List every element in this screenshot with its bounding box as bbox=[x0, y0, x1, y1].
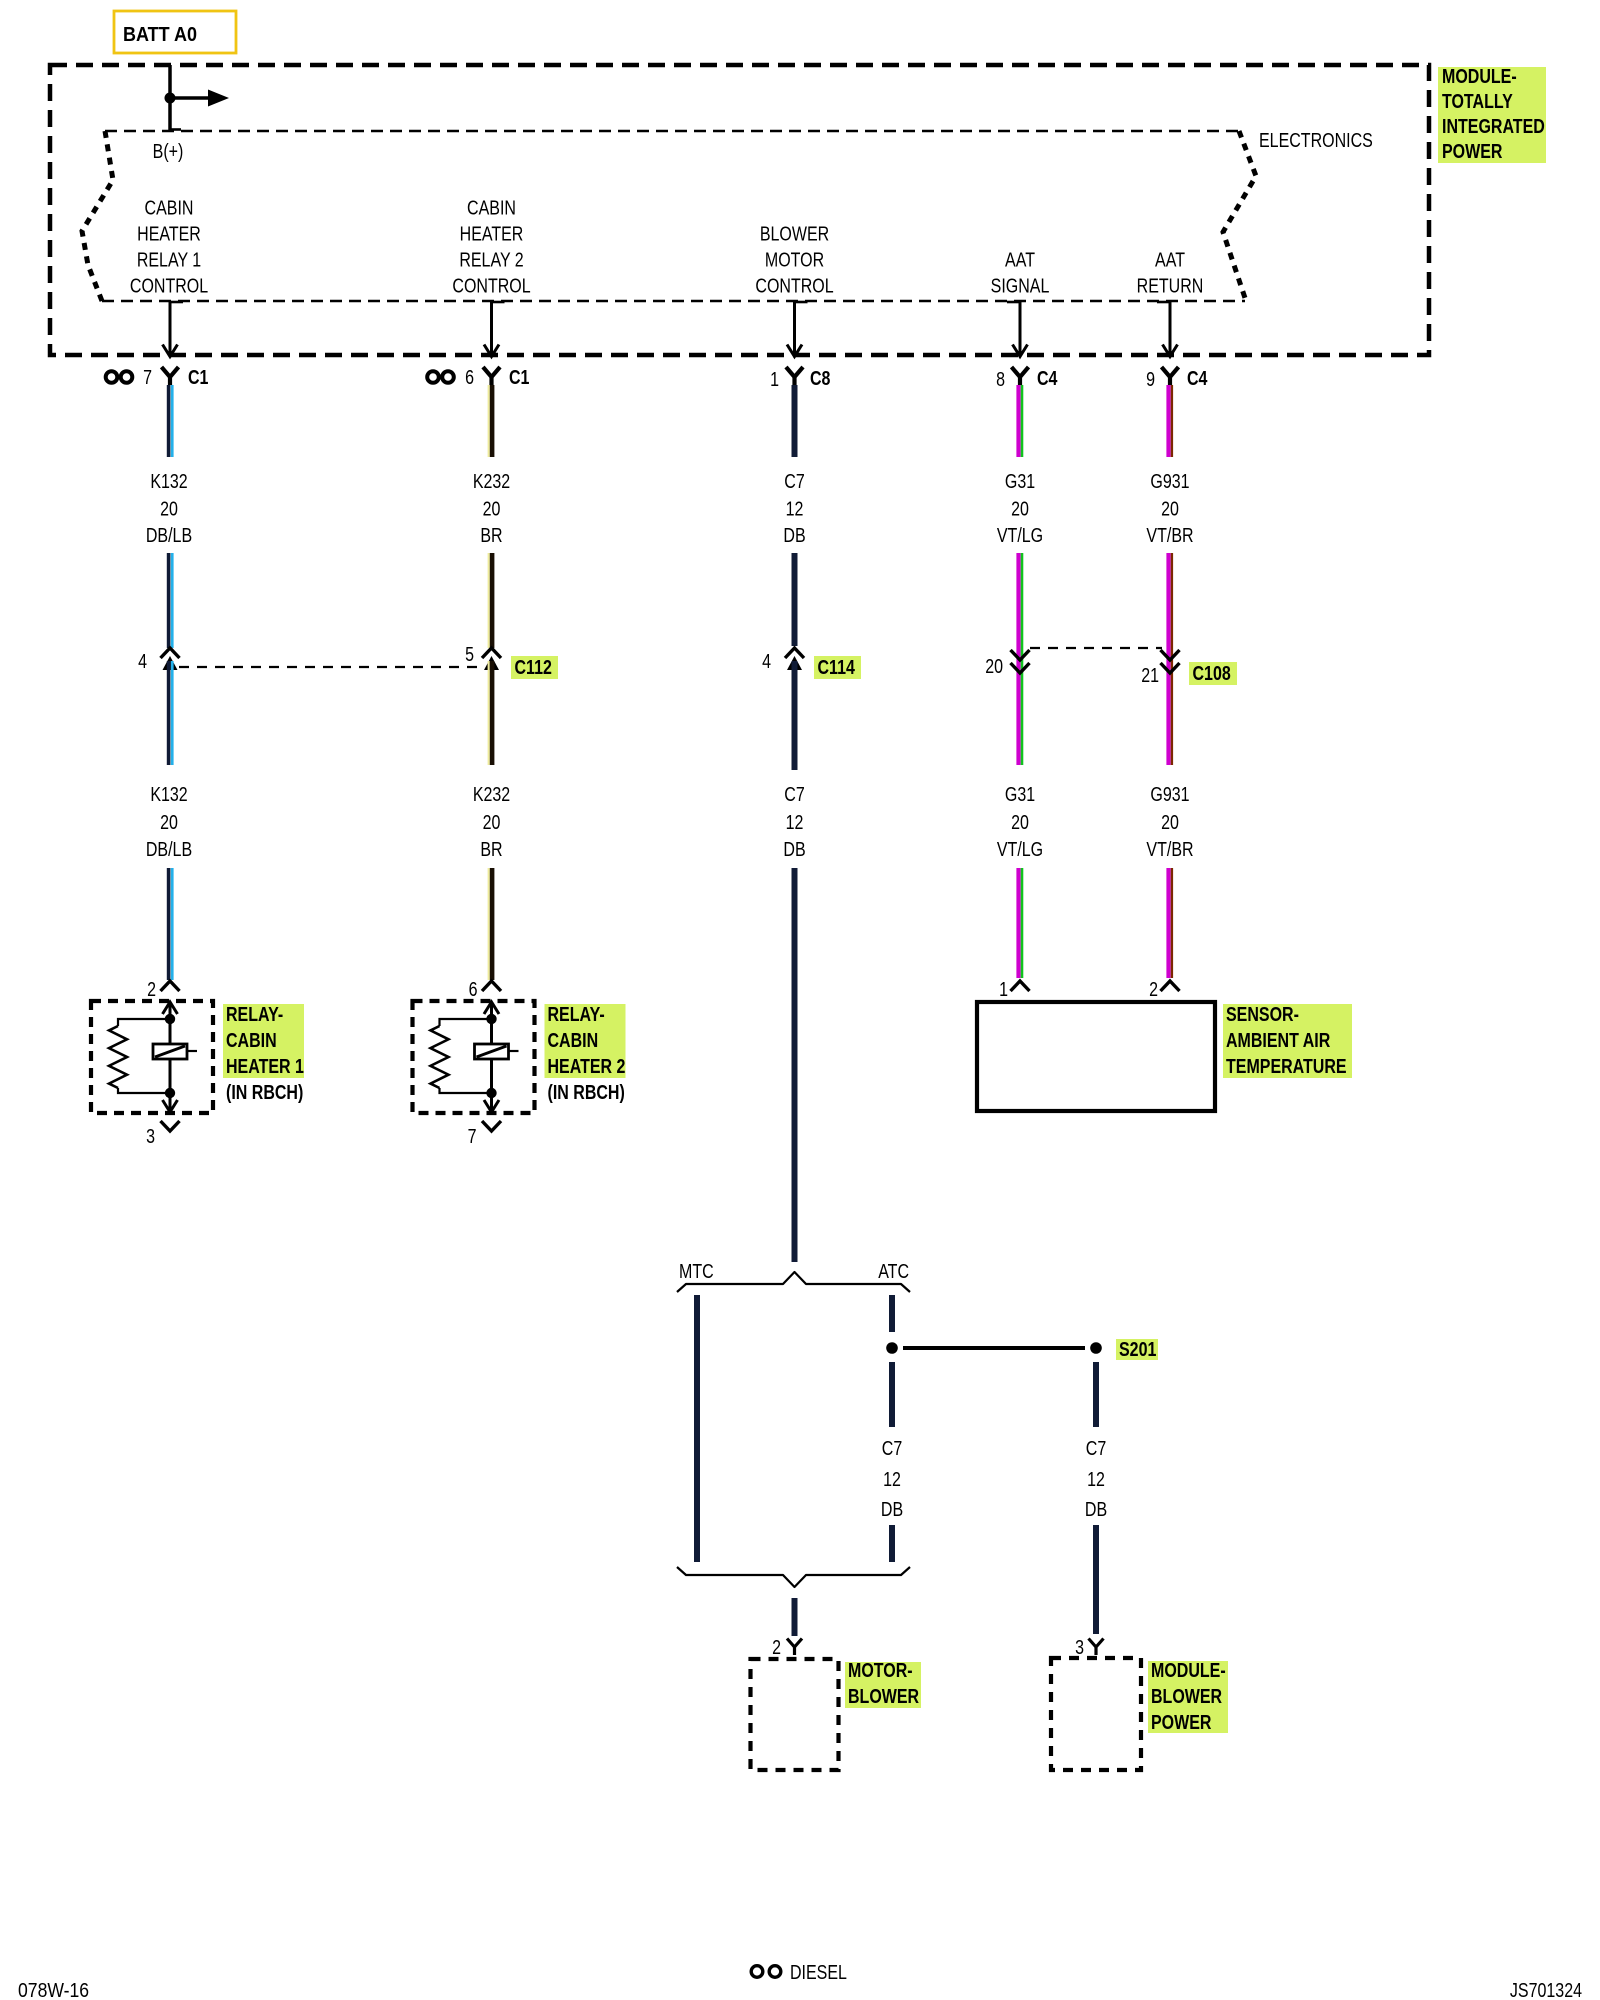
svg-text:C114: C114 bbox=[818, 656, 855, 678]
svg-text:6: 6 bbox=[469, 978, 478, 1000]
svg-text:K132: K132 bbox=[150, 783, 187, 805]
svg-text:DB: DB bbox=[783, 524, 805, 546]
relay cabin heater 1 bottom junction dot bbox=[165, 1088, 175, 1098]
svg-text:G31: G31 bbox=[1005, 783, 1035, 805]
svg-text:DB/LB: DB/LB bbox=[146, 524, 192, 546]
svg-text:JS701324: JS701324 bbox=[1510, 1979, 1582, 2000]
label MODULE-BLOWER POWER bbox=[1148, 1661, 1228, 1733]
svg-text:C7: C7 bbox=[882, 1437, 902, 1459]
wire G31 20 VT/LG upper segment bbox=[1016, 385, 1020, 457]
arrow cabin heater relay 1 control output bbox=[170, 301, 183, 304]
svg-text:C1: C1 bbox=[509, 366, 529, 388]
svg-text:G931: G931 bbox=[1150, 783, 1189, 805]
brace merge to blower motor bbox=[677, 1567, 910, 1587]
svg-text:2: 2 bbox=[772, 1636, 781, 1658]
svg-text:C108: C108 bbox=[1193, 662, 1231, 684]
svg-text:20: 20 bbox=[985, 655, 1003, 677]
svg-text:MTC: MTC bbox=[679, 1260, 714, 1282]
svg-text:B(+): B(+) bbox=[153, 140, 184, 162]
svg-text:4: 4 bbox=[138, 650, 147, 672]
label S201 bbox=[1116, 1339, 1158, 1360]
relay cabin heater 2 pin 6 top bbox=[482, 981, 501, 991]
svg-text:G931: G931 bbox=[1150, 470, 1189, 492]
svg-text:20: 20 bbox=[1011, 811, 1029, 833]
connector pin 3 module-blower power bbox=[1089, 1639, 1104, 1648]
wire K232 lower segment bbox=[488, 661, 490, 765]
connector pin 7 C1 with twisted-pair marker bbox=[106, 371, 118, 383]
svg-text:RETURN: RETURN bbox=[1137, 275, 1204, 297]
svg-text:POWER: POWER bbox=[1151, 1711, 1211, 1733]
svg-text:20: 20 bbox=[483, 498, 501, 520]
svg-text:RELAY-: RELAY- bbox=[226, 1003, 283, 1025]
wire G31 segment through C108 bbox=[1016, 553, 1020, 765]
svg-text:HEATER: HEATER bbox=[137, 223, 201, 245]
svg-text:C7: C7 bbox=[784, 783, 804, 805]
svg-text:21: 21 bbox=[1141, 664, 1159, 686]
label relay cabin heater 2 bbox=[545, 1004, 626, 1078]
svg-text:BATT A0: BATT A0 bbox=[123, 24, 197, 46]
connector C114 pin 4 chevrons bbox=[785, 648, 804, 658]
svg-text:20: 20 bbox=[1161, 498, 1179, 520]
wire splice S201 horizontal bbox=[903, 1346, 1085, 1350]
arrow AAT signal output bbox=[1007, 301, 1020, 304]
label C108 bbox=[1189, 662, 1237, 685]
svg-text:AMBIENT AIR: AMBIENT AIR bbox=[1226, 1029, 1330, 1051]
svg-text:20: 20 bbox=[160, 498, 178, 520]
connector C112 pin 4 chevrons bbox=[161, 648, 180, 658]
relay cabin heater 2 pin 7 bottom bbox=[482, 1121, 501, 1131]
svg-text:6: 6 bbox=[465, 366, 474, 388]
svg-text:DIESEL: DIESEL bbox=[790, 1961, 847, 1983]
wire G931 segment through C108 bbox=[1166, 553, 1170, 765]
diesel marker bbox=[751, 1966, 763, 1978]
svg-text:12: 12 bbox=[786, 498, 804, 520]
svg-text:7: 7 bbox=[143, 366, 152, 388]
svg-text:RELAY 2: RELAY 2 bbox=[459, 249, 523, 271]
svg-text:20: 20 bbox=[1011, 498, 1029, 520]
svg-text:BLOWER: BLOWER bbox=[760, 223, 829, 245]
wire K232 segment to relay 2 bbox=[488, 868, 490, 980]
svg-text:CABIN: CABIN bbox=[548, 1029, 599, 1051]
svg-text:MOTOR-: MOTOR- bbox=[848, 1659, 913, 1681]
svg-text:7: 7 bbox=[468, 1125, 477, 1147]
svg-text:(IN RBCH): (IN RBCH) bbox=[226, 1081, 303, 1103]
svg-text:C4: C4 bbox=[1187, 367, 1207, 389]
electronics inner dashed boundary bottom bbox=[102, 300, 1245, 303]
module TIPM outer dashed boundary bbox=[50, 65, 1429, 355]
relay cabin heater 2 ground arrow bbox=[490, 1093, 493, 1110]
wire K132 20 DB/LB upper segment bbox=[167, 385, 171, 457]
svg-text:BLOWER: BLOWER bbox=[848, 1685, 919, 1707]
label C114 bbox=[814, 656, 861, 679]
svg-text:AAT: AAT bbox=[1155, 249, 1185, 271]
label MOTOR-BLOWER bbox=[845, 1662, 921, 1708]
svg-text:HEATER 2: HEATER 2 bbox=[548, 1055, 626, 1077]
wire K232 segment to C112 bbox=[488, 553, 490, 648]
svg-text:5: 5 bbox=[465, 643, 474, 665]
svg-text:CONTROL: CONTROL bbox=[452, 275, 530, 297]
relay cabin heater 1 internal resistor bbox=[118, 1019, 170, 1026]
svg-text:2: 2 bbox=[1149, 978, 1158, 1000]
sensor pin 2 bbox=[1161, 981, 1180, 991]
connector C108 pin 20 chevrons bbox=[1011, 650, 1030, 660]
svg-text:C112: C112 bbox=[515, 656, 552, 678]
svg-text:CABIN: CABIN bbox=[145, 197, 194, 219]
svg-text:1: 1 bbox=[770, 368, 779, 390]
connector C108 pin 21 chevrons bbox=[1161, 650, 1180, 660]
svg-text:BLOWER: BLOWER bbox=[1151, 1685, 1222, 1707]
sensor ambient air temperature box bbox=[977, 1002, 1215, 1111]
svg-text:C1: C1 bbox=[188, 366, 208, 388]
svg-text:MODULE-: MODULE- bbox=[1442, 65, 1517, 87]
svg-text:INTEGRATED: INTEGRATED bbox=[1442, 115, 1545, 137]
wire module blower power lower bbox=[1093, 1525, 1099, 1634]
wire ATC branch into brace bbox=[889, 1525, 895, 1562]
relay cabin heater 1 ground arrow bbox=[169, 1093, 172, 1110]
connector pin 2 motor-blower bbox=[787, 1639, 802, 1648]
splice S201 dot left bbox=[886, 1342, 898, 1354]
label BATT A0 box bbox=[114, 11, 236, 53]
svg-text:3: 3 bbox=[146, 1125, 155, 1147]
svg-text:12: 12 bbox=[786, 811, 804, 833]
svg-text:12: 12 bbox=[1087, 1468, 1105, 1490]
svg-text:12: 12 bbox=[883, 1468, 901, 1490]
svg-text:K232: K232 bbox=[473, 783, 510, 805]
wire K232 20 BR upper segment bbox=[488, 385, 490, 457]
relay cabin heater 2 bottom junction dot bbox=[486, 1088, 496, 1098]
relay cabin heater 2 coil feed arrow bbox=[490, 1004, 493, 1019]
sensor pin 1 bbox=[1011, 981, 1030, 991]
svg-text:ELECTRONICS: ELECTRONICS bbox=[1259, 129, 1373, 151]
wire C7 12 DB segment below C114 bbox=[792, 661, 798, 770]
svg-text:BR: BR bbox=[480, 524, 502, 546]
wire MTC branch bbox=[694, 1295, 700, 1562]
wire G931 20 VT/BR upper segment bbox=[1166, 385, 1170, 457]
svg-text:RELAY 1: RELAY 1 bbox=[137, 249, 201, 271]
electronics left torn edge bbox=[82, 131, 113, 301]
svg-text:DB: DB bbox=[881, 1498, 903, 1520]
svg-text:VT/BR: VT/BR bbox=[1146, 838, 1193, 860]
svg-text:4: 4 bbox=[762, 650, 771, 672]
connector C112 pin 5 chevrons bbox=[482, 648, 501, 658]
svg-text:HEATER 1: HEATER 1 bbox=[226, 1055, 304, 1077]
svg-text:VT/LG: VT/LG bbox=[997, 838, 1043, 860]
svg-text:CABIN: CABIN bbox=[467, 197, 516, 219]
wire C7 12 DB segment to C114 bbox=[792, 553, 798, 646]
dashed link C112 bbox=[179, 666, 483, 668]
wire ATC branch upper bbox=[889, 1295, 895, 1332]
wire G31 segment to sensor bbox=[1016, 868, 1020, 978]
wire G931 segment to sensor bbox=[1166, 868, 1170, 978]
svg-text:MOTOR: MOTOR bbox=[765, 249, 824, 271]
wire C7 12 DB upper segment bbox=[792, 385, 798, 457]
svg-text:SENSOR-: SENSOR- bbox=[1226, 1003, 1299, 1025]
electronics right torn edge bbox=[1223, 131, 1256, 301]
svg-text:K132: K132 bbox=[150, 470, 187, 492]
label SENSOR-AMBIENT AIR TEMPERATURE bbox=[1223, 1004, 1352, 1078]
motor-blower dashed box bbox=[751, 1659, 839, 1770]
svg-text:C4: C4 bbox=[1037, 367, 1057, 389]
wire module blower power branch bbox=[1093, 1362, 1099, 1427]
arrow to other circuits bbox=[170, 96, 210, 100]
relay cabin heater 2 internal resistor bbox=[440, 1019, 492, 1026]
svg-text:S201: S201 bbox=[1119, 1338, 1156, 1360]
svg-text:MODULE-: MODULE- bbox=[1151, 1659, 1226, 1681]
dashed link C108 bbox=[1030, 647, 1162, 649]
label relay cabin heater 1 bbox=[223, 1004, 304, 1078]
arrow cabin heater relay 2 control output bbox=[492, 301, 505, 304]
relay cabin heater 1 coil bbox=[169, 1019, 172, 1044]
svg-text:HEATER: HEATER bbox=[460, 223, 524, 245]
relay cabin heater 1 coil feed arrow bbox=[169, 1004, 172, 1019]
arrow AAT return output bbox=[1157, 301, 1170, 304]
node B(+) wire from BATT A0 bbox=[168, 65, 172, 131]
junction dot B(+) bbox=[165, 93, 176, 104]
brace split MTC/ATC bbox=[677, 1272, 910, 1292]
svg-text:CABIN: CABIN bbox=[226, 1029, 277, 1051]
svg-text:RELAY-: RELAY- bbox=[548, 1003, 605, 1025]
svg-text:9: 9 bbox=[1146, 368, 1155, 390]
relay cabin heater 1 dashed housing bbox=[91, 1001, 213, 1113]
wire ATC branch lower bbox=[889, 1362, 895, 1427]
wire blower motor stem bbox=[792, 1598, 798, 1636]
svg-text:ATC: ATC bbox=[878, 1260, 909, 1282]
relay cabin heater 2 dashed housing bbox=[413, 1001, 535, 1113]
svg-text:G31: G31 bbox=[1005, 470, 1035, 492]
relay cabin heater 2 coil bbox=[490, 1019, 493, 1044]
wire C7 12 DB long segment to splice area bbox=[792, 868, 798, 1262]
svg-text:K232: K232 bbox=[473, 470, 510, 492]
module-blower power dashed box bbox=[1051, 1658, 1141, 1770]
svg-text:CONTROL: CONTROL bbox=[755, 275, 833, 297]
svg-text:078W-16: 078W-16 bbox=[18, 1979, 89, 2000]
svg-text:DB/LB: DB/LB bbox=[146, 838, 192, 860]
svg-text:AAT: AAT bbox=[1005, 249, 1035, 271]
svg-text:20: 20 bbox=[160, 811, 178, 833]
label MODULE-TOTALLY INTEGRATED POWER bbox=[1438, 67, 1546, 163]
svg-text:DB: DB bbox=[783, 838, 805, 860]
svg-text:C7: C7 bbox=[784, 470, 804, 492]
svg-text:20: 20 bbox=[1161, 811, 1179, 833]
svg-text:3: 3 bbox=[1075, 1636, 1084, 1658]
svg-text:BR: BR bbox=[480, 838, 502, 860]
svg-text:C7: C7 bbox=[1086, 1437, 1106, 1459]
svg-text:CONTROL: CONTROL bbox=[130, 275, 208, 297]
wire K132 segment to relay 1 bbox=[167, 868, 171, 980]
svg-text:VT/BR: VT/BR bbox=[1146, 524, 1193, 546]
svg-text:DB: DB bbox=[1085, 1498, 1107, 1520]
svg-text:20: 20 bbox=[483, 811, 501, 833]
svg-text:TEMPERATURE: TEMPERATURE bbox=[1226, 1055, 1347, 1077]
relay cabin heater 2 top junction dot bbox=[486, 1014, 496, 1024]
relay cabin heater 1 pin 3 bottom bbox=[161, 1121, 180, 1131]
wire K132 lower segment bbox=[167, 661, 171, 765]
connector pin 6 C1 with twisted-pair marker bbox=[427, 371, 439, 383]
svg-text:(IN RBCH): (IN RBCH) bbox=[548, 1081, 625, 1103]
svg-text:1: 1 bbox=[999, 978, 1008, 1000]
relay cabin heater 1 top junction dot bbox=[165, 1014, 175, 1024]
label C112 bbox=[511, 656, 558, 679]
electronics inner dashed boundary top bbox=[105, 130, 1239, 133]
svg-text:VT/LG: VT/LG bbox=[997, 524, 1043, 546]
arrow blower motor control output bbox=[795, 301, 808, 304]
wire K132 segment to C112 bbox=[167, 553, 171, 648]
svg-text:8: 8 bbox=[996, 368, 1005, 390]
svg-text:2: 2 bbox=[147, 978, 156, 1000]
relay cabin heater 1 pin 2 top bbox=[161, 981, 180, 991]
svg-text:SIGNAL: SIGNAL bbox=[991, 275, 1050, 297]
splice S201 dot right bbox=[1090, 1342, 1102, 1354]
svg-text:POWER: POWER bbox=[1442, 140, 1502, 162]
svg-text:C8: C8 bbox=[810, 367, 830, 389]
svg-text:TOTALLY: TOTALLY bbox=[1442, 90, 1513, 112]
